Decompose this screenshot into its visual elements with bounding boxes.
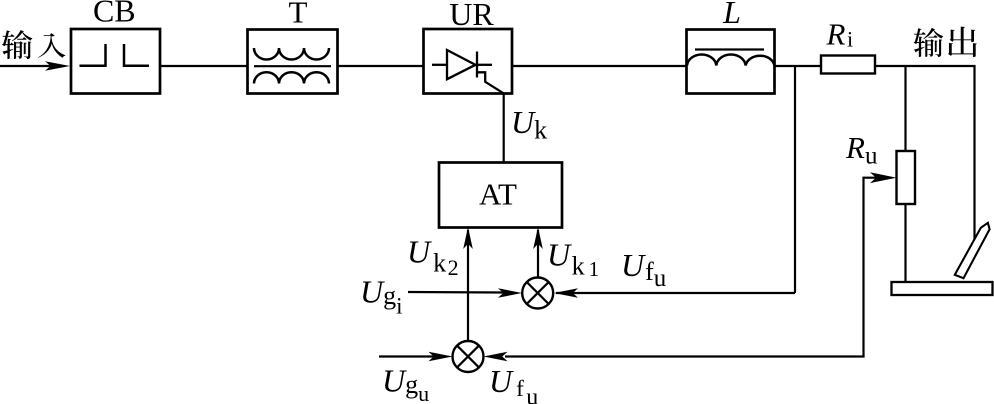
svg-text:Uk1: Uk1 — [547, 237, 599, 282]
block T — [248, 30, 338, 94]
arrowhead Uk2 into AT — [463, 227, 473, 249]
breaker contact right — [124, 44, 149, 66]
wire Uk — [503, 94, 505, 163]
wire Uk1 — [537, 230, 539, 278]
label 输入 (input) — [2, 30, 66, 59]
transformer core line — [254, 65, 331, 67]
wire T to UR — [338, 65, 424, 67]
svg-text:T: T — [289, 0, 308, 30]
block AT — [439, 163, 562, 228]
arrowhead Ugi into middle multiplier — [498, 288, 522, 298]
wire Ru to chassis bar — [904, 204, 906, 283]
label 输出 (output) — [913, 27, 976, 57]
block CB — [71, 29, 160, 94]
transformer secondary winding — [254, 72, 329, 83]
chassis bar — [892, 282, 993, 295]
svg-text:CB: CB — [93, 0, 136, 29]
wire Ugi — [408, 291, 504, 294]
wire feedback from node A down — [794, 66, 796, 293]
svg-text:Ri: Ri — [826, 17, 854, 52]
arrowhead input — [45, 61, 70, 71]
breaker contact left — [80, 44, 106, 66]
wire node B to Ru — [904, 66, 906, 151]
inductor winding arcs — [687, 54, 775, 65]
svg-text:Uk: Uk — [511, 104, 547, 145]
block L — [687, 30, 775, 94]
resistor Ri — [821, 56, 875, 74]
svg-text:Ugu: Ugu — [382, 363, 429, 404]
svg-text:Ufu: Ufu — [621, 247, 667, 292]
arrowhead into middle multiplier from right — [554, 288, 578, 298]
inductor core line — [695, 48, 764, 50]
arrowhead into bottom multiplier from right — [484, 352, 508, 362]
svg-text:Ugi: Ugi — [360, 274, 403, 319]
resistor Ru (potentiometer) — [897, 151, 916, 204]
thyristor symbol — [432, 50, 504, 93]
wire UR to L — [512, 65, 687, 67]
multiplier bottom — [453, 341, 484, 372]
svg-text:Uk2: Uk2 — [407, 234, 459, 281]
transformer primary winding — [254, 48, 329, 60]
wire output right drop — [973, 66, 975, 245]
slider blade — [955, 223, 990, 278]
wire Ugu — [379, 355, 436, 357]
block UR — [424, 29, 513, 94]
wire wiper feedback down — [862, 177, 864, 357]
wire L to Ri — [775, 65, 822, 67]
svg-text:AT: AT — [479, 177, 517, 212]
svg-text:UR: UR — [449, 0, 494, 32]
arrowhead Ugu into bottom multiplier — [429, 352, 453, 362]
wire input — [0, 65, 60, 67]
svg-text:Ru: Ru — [845, 130, 878, 170]
wiper arrow stub — [864, 177, 877, 179]
wire feedback to middle multiplier — [556, 292, 795, 294]
multiplier middle — [522, 278, 553, 309]
svg-text:Ufu: Ufu — [489, 363, 538, 404]
wire feedback to bottom multiplier — [505, 355, 865, 357]
svg-text:L: L — [722, 0, 741, 30]
arrowhead wiper into Ru — [870, 172, 896, 183]
wire Uk2 — [467, 230, 469, 341]
arrowhead Uk1 into AT — [533, 227, 543, 249]
wire Ri to output — [875, 65, 976, 67]
wire CB to T — [160, 65, 247, 67]
